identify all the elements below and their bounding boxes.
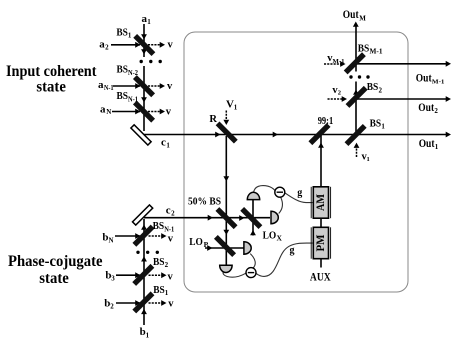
svg-text:2: 2 (165, 261, 169, 269)
svg-text:Phase-cojugate: Phase-cojugate (8, 253, 103, 270)
svg-text:Out: Out (343, 9, 359, 21)
svg-text:1: 1 (381, 122, 385, 130)
svg-text:M-1: M-1 (333, 58, 345, 65)
svg-text:Out: Out (418, 102, 434, 114)
svg-text:1: 1 (234, 104, 238, 112)
svg-text:N: N (106, 108, 111, 116)
svg-text:g: g (297, 188, 302, 199)
svg-text:AUX: AUX (310, 272, 331, 284)
svg-text:BS: BS (367, 81, 379, 93)
svg-text:v: v (168, 271, 174, 282)
svg-text:v: v (168, 39, 174, 50)
svg-text:M: M (359, 14, 366, 22)
svg-text:1: 1 (367, 156, 370, 163)
svg-text:N: N (109, 237, 114, 245)
svg-text:1: 1 (435, 143, 439, 151)
svg-text:R: R (209, 114, 217, 125)
svg-text:c: c (166, 205, 171, 217)
svg-text:N-1: N-1 (128, 95, 138, 103)
svg-text:N-2: N-2 (128, 69, 138, 77)
svg-text:Out: Out (416, 72, 432, 84)
svg-text:N-1: N-1 (104, 84, 114, 92)
svg-text:50% BS: 50% BS (188, 197, 221, 208)
svg-text:2: 2 (110, 302, 114, 310)
svg-text:a: a (100, 103, 106, 115)
svg-text:LO: LO (189, 237, 203, 248)
svg-text:3: 3 (111, 274, 115, 282)
svg-text:BS: BS (116, 26, 128, 38)
svg-text:Input coherent: Input coherent (6, 63, 97, 80)
svg-text:1: 1 (165, 289, 169, 297)
svg-text:1: 1 (166, 142, 170, 150)
svg-text:BS: BS (153, 284, 165, 296)
svg-text:v: v (168, 298, 174, 309)
svg-text:BS: BS (153, 220, 165, 232)
svg-text:X: X (277, 234, 283, 243)
svg-text:AM: AM (315, 194, 327, 211)
svg-text:Out: Out (419, 138, 435, 150)
svg-text:g: g (290, 245, 295, 256)
svg-text:2: 2 (105, 44, 109, 52)
svg-text:state: state (36, 78, 66, 95)
svg-text:v: v (167, 81, 173, 92)
svg-text:BS: BS (370, 117, 382, 129)
svg-text:M-1: M-1 (370, 48, 384, 56)
svg-text:1: 1 (147, 18, 151, 26)
svg-text:1: 1 (128, 31, 132, 39)
svg-text:P: P (204, 240, 209, 249)
svg-text:2: 2 (434, 107, 438, 115)
svg-text:v: v (168, 233, 174, 244)
svg-text:PM: PM (315, 234, 327, 251)
svg-text:c: c (161, 137, 166, 149)
svg-text:state: state (39, 270, 69, 287)
svg-text:v: v (166, 107, 172, 118)
svg-text:BS: BS (358, 43, 370, 55)
svg-text:BS: BS (117, 63, 129, 75)
svg-text:M-1: M-1 (432, 78, 445, 85)
svg-text:2: 2 (338, 90, 341, 97)
svg-text:2: 2 (171, 210, 175, 218)
svg-text:BS: BS (153, 256, 165, 268)
svg-text:BS: BS (117, 90, 129, 102)
svg-text:2: 2 (379, 86, 383, 94)
svg-text:99:1: 99:1 (318, 116, 334, 127)
svg-text:1: 1 (146, 331, 150, 339)
svg-text:LO: LO (263, 231, 277, 242)
